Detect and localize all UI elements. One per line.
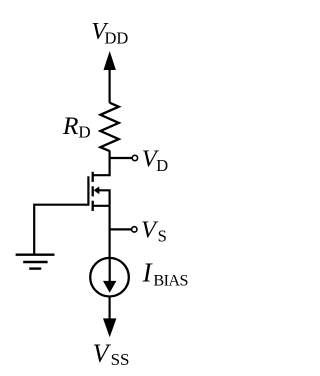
wire: resistor bottom to drain (93, 151, 110, 176)
terminal circle VS (132, 227, 137, 232)
current source arrowhead (103, 281, 116, 293)
terminal circle VD (132, 155, 137, 160)
power arrow to VSS (103, 318, 116, 337)
resistor RD (100, 103, 118, 151)
svg-text:R: R (62, 111, 79, 140)
wire: source stub (93, 205, 110, 207)
wire: gate to ground (34, 205, 88, 254)
svg-text:D: D (156, 156, 168, 175)
transistor channel segment (source) (92, 201, 94, 211)
transistor bulk arrow (94, 186, 100, 194)
svg-text:V: V (93, 339, 112, 368)
wire: current source to VSS arrow (108, 296, 110, 322)
transistor channel segment (drain) (92, 172, 94, 182)
power arrow to VDD (104, 51, 116, 70)
ground bar 1 (16, 253, 55, 255)
wire: branch to VS terminal (110, 228, 131, 230)
svg-text:I: I (142, 258, 154, 288)
transistor (NMOS) gate bar (87, 176, 89, 205)
wire: bulk to source tie (99, 190, 110, 206)
wire: branch to VD terminal (110, 157, 132, 159)
wire: source rail down to current source (108, 206, 110, 259)
ground bar 3 (29, 267, 41, 269)
svg-text:V: V (141, 216, 159, 243)
ground bar 2 (23, 261, 47, 263)
current source IBIAS circle (90, 258, 129, 297)
svg-text:SS: SS (111, 350, 130, 369)
transistor channel segment (bulk) (92, 186, 94, 196)
svg-text:DD: DD (105, 28, 129, 47)
wire: VDD lead down to resistor (108, 64, 110, 103)
svg-text:D: D (78, 122, 90, 141)
svg-text:S: S (158, 227, 167, 246)
svg-text:BIAS: BIAS (153, 271, 187, 289)
current source arrow shaft (109, 259, 111, 283)
